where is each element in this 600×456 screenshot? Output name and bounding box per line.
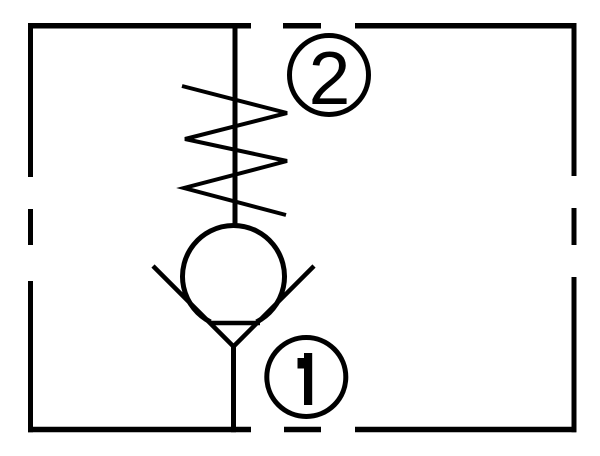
wire: lower center flow line (seat to port 1) xyxy=(231,344,236,432)
spring xyxy=(182,86,287,215)
seat V left diagonal xyxy=(153,266,234,347)
poppet ball xyxy=(183,225,285,322)
valve envelope left border (dashed) xyxy=(28,23,33,432)
valve envelope right border (dashed) xyxy=(572,23,577,432)
valve envelope top border (dashed) xyxy=(28,23,576,29)
port circle 2 xyxy=(290,36,369,115)
svg-text:2: 2 xyxy=(309,36,351,120)
seat V right diagonal xyxy=(234,266,315,347)
wire: upper center flow line (port 2 to poppet) xyxy=(233,23,238,224)
port label 1 xyxy=(298,353,313,405)
port circle 1 xyxy=(267,338,346,417)
valve envelope bottom border (dashed) xyxy=(28,427,576,433)
seat line under ball xyxy=(210,321,260,326)
